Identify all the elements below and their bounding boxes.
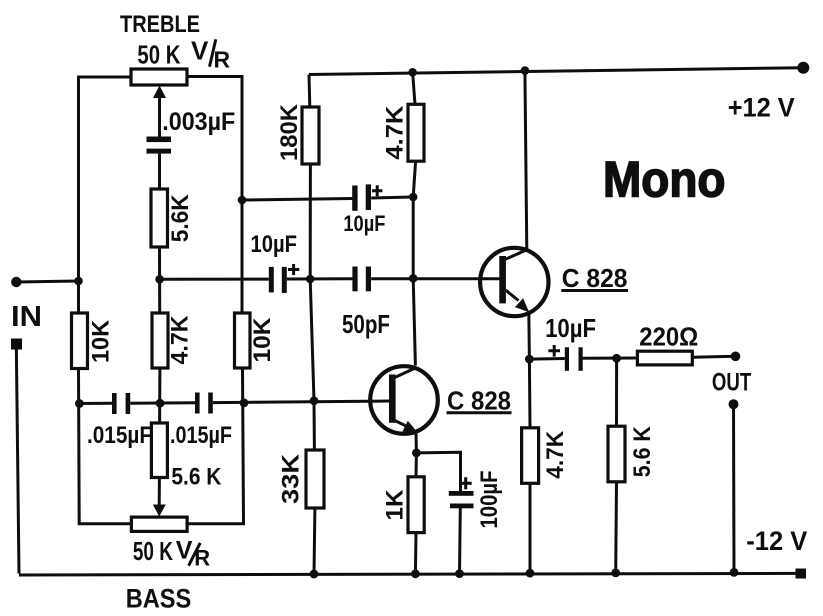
svg-text:.015µF: .015µF [87,422,152,449]
treble wiper arrowhead [153,86,166,99]
wire +12V top rail [309,68,804,75]
node feedback line left [238,196,247,205]
transistor Q2 collector lead [505,249,528,259]
wire 10uF cap to T1 collector line [371,197,413,198]
svg-text:50 K: 50 K [133,536,173,566]
node +12V rail at 4.7K [408,68,417,77]
svg-text:180K: 180K [276,103,303,161]
wire 10uF input cap to bias node [287,277,353,280]
capacitor 50pF plates [352,267,357,292]
capacitor 10uF input plates [269,267,274,293]
wire 100uF to bottom rail [458,508,462,574]
plus sign 10uF output [548,345,560,357]
transistor Q1 C828 circle [370,366,438,434]
wire 220 ohm to OUT terminal [692,355,735,359]
svg-text:10K: 10K [249,317,276,363]
node bottom rail at 4.7K out [526,569,535,578]
wire left branch below 10K to bass pot left lead [79,369,132,524]
wire output node down through 4.7K to rail [528,359,532,573]
svg-text:BASS: BASS [126,584,192,614]
wire treble wiper stem [158,96,161,137]
capacitor 10uF feedback plates [352,186,357,211]
svg-text:5.6K: 5.6K [167,194,194,243]
node tone bottom at 10K right [240,399,249,408]
wire .003uF to 5.6K treble [158,154,161,189]
resistor 10K left [72,313,88,369]
node bottom rail at 1K [411,569,420,578]
node tone bottom at 33K [310,396,319,405]
node bottom rail at 5.6K out [611,569,620,578]
transistor Q2 C828 circle [480,248,548,316]
plus sign 100uF [460,477,472,489]
capacitor .015uF left plates [112,393,117,414]
node feedback line right [409,193,418,202]
svg-text:10µF: 10µF [343,211,385,236]
svg-text:V: V [191,35,209,65]
wire right branch below 10K to bass pot right lead [187,368,243,524]
svg-text:10K: 10K [88,319,115,363]
svg-text:Mono: Mono [603,152,726,208]
terminal -12V endpoint [796,569,807,579]
wire 1K to bottom rail [414,533,418,574]
node bottom rail at 33K [310,570,319,579]
node tone bottom at 10K left [75,399,84,408]
transistor Q2 emitter arrowhead [515,298,529,312]
transistor Q1 emitter arrowhead [402,421,417,433]
transistor Q1 base bar [389,375,396,423]
resistor 4.7K mid [152,313,168,368]
svg-text:+12 V: +12 V [728,92,795,122]
wire bias branch 180K 33K [309,75,315,575]
node tone bottom at 4.7K mid [156,399,165,408]
wire 10uF out cap to 220 ohm [583,357,638,360]
plus sign 10uF feedback [372,185,382,196]
wire T2 collector to top rail [525,71,527,250]
wire OUT lower terminal to bottom rail [732,404,736,573]
svg-text:50pF: 50pF [342,309,390,339]
svg-text:-12 V: -12 V [746,526,807,556]
resistor 5.6K treble [151,189,168,247]
bass wiper arrowhead [153,505,166,517]
wire treble pot left lead [79,77,132,313]
resistor 10K right [235,313,251,368]
svg-text:4.7K: 4.7K [167,315,194,365]
wire -12V bottom rail [19,573,801,575]
potentiometer TREBLE 50K V/R body [131,69,187,85]
node IN at left branch [74,277,83,286]
resistor 180K [302,107,319,164]
node +12V rail at T2 collector [521,66,530,75]
node output at 5.6K branch [612,354,621,363]
node bottom rail at OUT [730,568,739,577]
svg-text:C 828: C 828 [447,386,511,416]
wire 5.6K treble to node [158,247,161,313]
svg-text:5.6 K: 5.6 K [629,426,656,478]
terminal IN lower [11,339,22,350]
plus sign 10uF input [288,264,299,275]
resistor 220 ohm horizontal [637,351,692,365]
wire treble pot right lead [187,77,242,314]
capacitor .003uF plates [147,137,172,143]
svg-text:10µF: 10µF [251,231,298,258]
resistor 4.7K output [522,428,539,484]
resistor 5.6K output [608,426,625,482]
svg-text:R: R [194,546,210,571]
transistor Q1 collector lead [393,368,416,379]
wire signal line node B to 10uF input cap [160,278,269,281]
wire 5.6K bass to bass wiper arrow [158,478,161,507]
wire tone bottom line with .015uF gaps [79,401,389,404]
wire T1 emitter down to 1K [415,433,418,477]
terminal IN upper [11,277,21,287]
svg-text:33K: 33K [278,453,305,504]
wire 50pF to T2 base [371,277,499,280]
resistor 5.6K bass [151,423,167,478]
node signal line at bias branch [306,275,315,284]
wire 4.7K mid to node [158,368,161,423]
svg-text:5.6 K: 5.6 K [171,463,222,490]
node bottom rail at 100uF [455,569,464,578]
svg-text:50 K: 50 K [137,39,180,69]
svg-text:100µF: 100µF [476,471,503,529]
wire IN to left branch [16,281,78,282]
wire T2 emitter to output node [527,312,531,360]
node signal line at collector branch [409,274,418,283]
svg-text:TREBLE: TREBLE [120,11,200,38]
transistor Q1 emitter lead [393,420,409,428]
capacitor .015uF right plates [195,393,200,414]
capacitor 100uF plates [449,491,474,496]
svg-text:10µF: 10µF [545,313,596,343]
svg-text:IN: IN [11,301,42,333]
resistor 4.7K top [408,104,424,161]
wire 5.6K out branch [614,358,618,573]
terminal OUT right [731,352,741,362]
wire 4.7K collector load branch [413,72,416,365]
terminal OUT lower [729,399,739,409]
node output at T2 emitter [525,355,534,364]
potentiometer BASS 50K V/R body [131,517,187,531]
svg-text:OUT: OUT [712,369,751,397]
transistor Q2 emitter lead [506,290,519,301]
svg-text:1K: 1K [382,489,409,521]
wire output node to 10uF out cap [529,357,564,361]
terminal +12V endpoint [797,62,809,74]
svg-text:.003µF: .003µF [162,108,235,136]
svg-text:C 828: C 828 [562,263,628,293]
resistor 33K [306,450,324,508]
svg-text:220Ω: 220Ω [639,321,698,351]
node signal line at 5.6K branch [155,275,164,284]
node T1 emitter junction [412,449,421,458]
wire IN terminal down to bottom rail [16,344,19,574]
svg-text:.015µF: .015µF [170,422,232,449]
svg-text:R: R [214,46,231,72]
wire emitter node to 100uF [416,452,460,491]
transistor Q2 base bar [499,256,506,303]
svg-text:4.7K: 4.7K [542,430,569,479]
capacitor 10uF output plates [565,347,569,371]
resistor 1K [408,477,424,533]
wire feedback line node A to 10uF cap [242,199,352,201]
svg-text:4.7K: 4.7K [382,105,409,160]
